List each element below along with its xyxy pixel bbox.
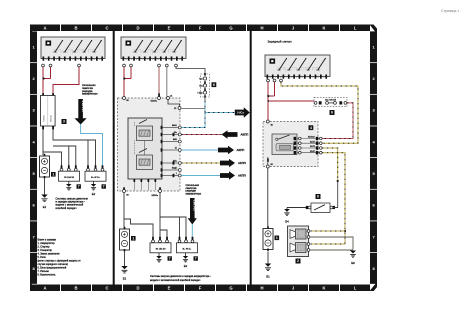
svg-text:15: 15 [51, 59, 53, 61]
svg-text:F: F [199, 286, 202, 291]
svg-text:Е8: Е8 [351, 261, 355, 265]
svg-text:75: 75 [163, 59, 165, 61]
svg-text:Е1: Е1 [43, 205, 47, 209]
svg-text:15: 15 [88, 59, 90, 61]
svg-text:F: F [199, 26, 202, 31]
svg-text:модели с автоматической коробк: модели с автоматической коробкой передач [150, 279, 201, 282]
svg-text:H: H [260, 286, 263, 291]
svg-text:7: 7 [78, 184, 80, 188]
svg-text:30: 30 [56, 59, 58, 61]
svg-text:Б4/гf1: Б4/гf1 [172, 125, 177, 127]
svg-text:H: H [260, 26, 263, 31]
svg-text:K: K [322, 286, 325, 291]
svg-text:2: 2 [297, 259, 299, 263]
svg-text:Б4/дБ: Б4/дБ [172, 167, 178, 169]
svg-text:E: E [168, 286, 171, 291]
svg-text:G1/50а: G1/50а [43, 114, 45, 122]
svg-text:Б1/5Г: Б1/5Г [310, 151, 315, 153]
svg-text:8,9Б 14,5: 8,9Б 14,5 [81, 101, 85, 113]
svg-text:15: 15 [168, 59, 170, 61]
svg-text:C: C [105, 26, 108, 31]
svg-text:X: X [142, 59, 143, 61]
svg-text:6: 6 [331, 111, 333, 115]
svg-text:15: 15 [275, 77, 277, 79]
svg-text:8,9Б 14,5: 8,9Б 14,5 [193, 200, 197, 212]
svg-text:30: 30 [280, 77, 282, 79]
svg-text:B+ W D+: B+ W D+ [183, 248, 193, 250]
svg-text:Б1/Г3: Б1/Г3 [310, 146, 315, 148]
svg-text:75: 75 [307, 77, 309, 79]
svg-text:Е4: Е4 [285, 220, 289, 224]
svg-text:Е2: Е2 [184, 264, 188, 268]
svg-text:50: 50 [291, 77, 293, 79]
svg-text:30: 30 [125, 59, 127, 61]
svg-text:30: 30 [269, 77, 271, 79]
svg-text:Зарядный сигнал: Зарядный сигнал [268, 40, 292, 44]
svg-text:15: 15 [312, 77, 314, 79]
svg-text:D: D [136, 26, 139, 31]
svg-text:A: A [43, 26, 46, 31]
svg-text:G: G [229, 26, 232, 31]
svg-text:15: 15 [72, 59, 74, 61]
svg-text:3: 3 [63, 120, 65, 124]
svg-text:30: 30 [45, 59, 47, 61]
svg-text:АКПП: АКПП [241, 133, 249, 137]
svg-text:Г1/5ф: Г1/5ф [198, 92, 203, 95]
svg-text:Б1/50а: Б1/50а [151, 100, 158, 102]
svg-text:30: 30 [173, 59, 175, 61]
svg-text:30: 30 [157, 59, 159, 61]
svg-text:X: X [62, 59, 63, 61]
svg-text:30: 30 [77, 59, 79, 61]
svg-text:30 15A 50: 30 15A 50 [156, 247, 167, 250]
svg-text:30: 30 [317, 77, 319, 79]
svg-text:50: 50 [67, 59, 69, 61]
svg-text:50: 50 [323, 77, 325, 79]
svg-text:30: 30 [301, 77, 303, 79]
svg-text:8. Выключатель: 8. Выключатель [38, 274, 57, 277]
svg-text:Ключ к схемам: Ключ к схемам [38, 238, 56, 241]
svg-text:Б1/50аh: Б1/50аh [308, 137, 315, 139]
svg-text:коробкой передач: коробкой передач [56, 207, 78, 210]
svg-text:G: G [229, 286, 232, 291]
svg-text:10а Г10 15Ф: 10а Г10 15Ф [325, 98, 336, 101]
svg-text:1: 1 [132, 236, 134, 240]
svg-text:75: 75 [83, 59, 85, 61]
svg-text:1: 1 [52, 172, 54, 176]
svg-text:Е1: Е1 [266, 275, 270, 279]
svg-text:15: 15 [296, 77, 298, 79]
svg-text:15: 15 [152, 59, 154, 61]
svg-text:Системы запуска двигателя и за: Системы запуска двигателя и зарядки акку… [150, 275, 211, 278]
svg-text:7: 7 [169, 256, 171, 260]
svg-text:15: 15 [175, 147, 177, 149]
svg-text:30 15A 50: 30 15A 50 [64, 176, 75, 179]
svg-text:Е2: Е2 [92, 192, 96, 196]
svg-text:аккумулятора: аккумулятора [82, 93, 98, 96]
svg-text:50: 50 [147, 59, 149, 61]
svg-text:D: D [136, 286, 139, 291]
svg-text:АКПП: АКПП [238, 174, 246, 178]
svg-text:K: K [322, 26, 325, 31]
svg-text:8: 8 [317, 195, 319, 199]
svg-text:Г1/4: Г1/4 [199, 86, 202, 88]
svg-text:Б1/Г5: Б1/Г5 [310, 141, 315, 143]
svg-text:C: C [105, 286, 108, 291]
svg-text:14/Са: 14/Са [237, 111, 245, 115]
svg-text:B: B [74, 26, 77, 31]
svg-text:50: 50 [179, 59, 181, 61]
svg-text:30: 30 [93, 59, 95, 61]
svg-text:7: 7 [195, 256, 197, 260]
svg-text:4: 4 [310, 126, 312, 130]
svg-text:7: 7 [103, 184, 105, 188]
svg-text:6: 6 [213, 83, 215, 87]
svg-text:E: E [168, 26, 171, 31]
svg-text:Г1/2: Г1/2 [199, 79, 202, 81]
svg-text:A: A [43, 286, 46, 291]
svg-text:30: 30 [136, 59, 138, 61]
svg-text:L: L [354, 26, 357, 31]
svg-text:Страница 1: Страница 1 [441, 9, 459, 13]
svg-text:1: 1 [276, 236, 278, 240]
svg-text:50: 50 [99, 59, 101, 61]
svg-text:1: 1 [176, 173, 177, 175]
svg-text:Е1: Е1 [123, 277, 127, 281]
svg-text:АКПП: АКПП [237, 148, 245, 152]
svg-text:АКПП: АКПП [238, 161, 246, 165]
svg-text:L: L [354, 286, 357, 291]
svg-text:B+ W D+: B+ W D+ [91, 177, 101, 179]
svg-text:6Б/100: 6Б/100 [51, 115, 53, 122]
svg-text:аккумулятора: аккумулятора [186, 192, 202, 195]
svg-text:15: 15 [131, 59, 133, 61]
svg-text:X: X [286, 77, 287, 79]
svg-text:B: B [74, 286, 77, 291]
svg-text:Б5/50а: Б5/50а [152, 195, 159, 197]
